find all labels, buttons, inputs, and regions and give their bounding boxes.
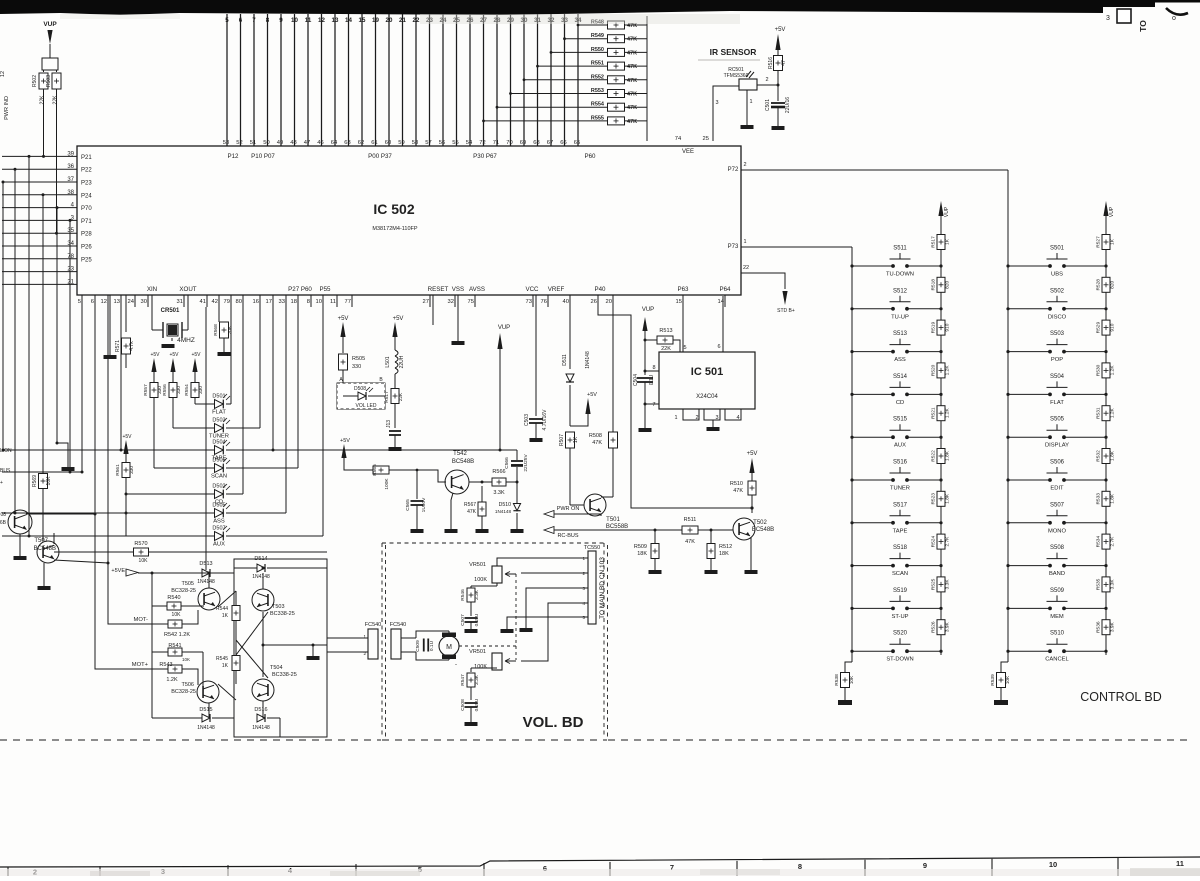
svg-text:R528: R528 xyxy=(1096,279,1102,291)
svg-text:P24: P24 xyxy=(81,193,92,199)
svg-text:R505: R505 xyxy=(352,356,365,362)
svg-text:31: 31 xyxy=(177,299,183,305)
svg-text:S501: S501 xyxy=(1050,246,1065,252)
svg-text:R569: R569 xyxy=(32,475,38,487)
svg-text:SCAN: SCAN xyxy=(892,571,908,577)
svg-text:D514: D514 xyxy=(254,556,267,562)
svg-text:D503: D503 xyxy=(212,418,225,424)
svg-text:TU-UP: TU-UP xyxy=(891,314,909,320)
svg-text:17: 17 xyxy=(266,299,272,305)
svg-text:33: 33 xyxy=(279,299,285,305)
svg-text:VSS: VSS xyxy=(452,286,464,293)
svg-text:ASS: ASS xyxy=(894,357,906,363)
svg-text:D501: D501 xyxy=(212,394,225,400)
svg-text:P00 P37: P00 P37 xyxy=(368,153,392,160)
svg-text:6: 6 xyxy=(239,17,243,24)
svg-text:BC328-25: BC328-25 xyxy=(171,689,196,695)
svg-text:MOT-: MOT- xyxy=(134,617,149,623)
svg-text:330: 330 xyxy=(176,386,182,394)
svg-text:S505: S505 xyxy=(1050,417,1065,423)
svg-text:XOUT: XOUT xyxy=(179,286,196,293)
svg-text:TU-DOWN: TU-DOWN xyxy=(886,272,914,278)
svg-text:T507: T507 xyxy=(34,538,48,544)
svg-text:P72: P72 xyxy=(728,167,739,173)
svg-text:SCAN: SCAN xyxy=(211,474,227,480)
svg-text:CONTROL BD: CONTROL BD xyxy=(1080,690,1162,704)
svg-text:P73: P73 xyxy=(728,244,739,250)
svg-text:9: 9 xyxy=(279,17,283,24)
svg-text:S502: S502 xyxy=(1050,288,1065,294)
svg-text:13: 13 xyxy=(114,299,120,305)
svg-text:11: 11 xyxy=(330,299,336,305)
svg-text:+5V: +5V xyxy=(747,451,758,457)
svg-text:R545: R545 xyxy=(216,656,228,662)
svg-text:1.2K: 1.2K xyxy=(166,677,178,683)
svg-text:IC 501: IC 501 xyxy=(691,366,723,378)
svg-text:R553: R553 xyxy=(591,88,604,94)
svg-text:22K: 22K xyxy=(398,392,404,401)
svg-text:3.3K: 3.3K xyxy=(1110,579,1116,590)
svg-text:BC548B: BC548B xyxy=(452,459,474,465)
svg-text:M38172M4-110FP: M38172M4-110FP xyxy=(372,226,417,232)
svg-text:S518: S518 xyxy=(893,545,908,551)
svg-text:R511: R511 xyxy=(684,517,697,523)
svg-text:R550: R550 xyxy=(591,47,604,53)
svg-text:R554: R554 xyxy=(184,384,190,396)
svg-text:CR501: CR501 xyxy=(161,308,180,314)
svg-text:VREF: VREF xyxy=(548,286,565,293)
svg-text:25: 25 xyxy=(703,136,709,142)
svg-text:75: 75 xyxy=(468,299,474,305)
svg-text:FLAT: FLAT xyxy=(212,410,226,416)
svg-text:59: 59 xyxy=(398,140,404,146)
svg-text:+5V: +5V xyxy=(338,316,349,322)
svg-text:1N4148: 1N4148 xyxy=(252,574,270,580)
svg-text:S514: S514 xyxy=(893,374,908,380)
svg-text:S509: S509 xyxy=(1050,588,1065,594)
svg-text:R513: R513 xyxy=(659,328,672,334)
svg-text:R520: R520 xyxy=(931,364,937,376)
svg-text:54: 54 xyxy=(466,140,473,146)
svg-text:FC540: FC540 xyxy=(365,622,382,628)
svg-text:62: 62 xyxy=(358,140,364,146)
svg-text:VR501: VR501 xyxy=(469,649,486,655)
svg-text:+5V: +5V xyxy=(393,316,404,322)
svg-text:S511: S511 xyxy=(893,246,907,252)
svg-text:22K: 22K xyxy=(40,95,46,105)
svg-text:6: 6 xyxy=(91,299,94,305)
svg-text:P26: P26 xyxy=(81,245,92,251)
svg-text:70: 70 xyxy=(506,140,512,146)
svg-text:R556: R556 xyxy=(162,384,168,396)
svg-text:R541: R541 xyxy=(168,643,181,649)
svg-text:42: 42 xyxy=(212,299,218,305)
svg-text:10K: 10K xyxy=(849,675,855,684)
svg-text:R532: R532 xyxy=(1096,450,1102,462)
svg-text:P40: P40 xyxy=(594,286,606,293)
svg-text:+5V: +5V xyxy=(169,352,179,358)
svg-text:1.2K: 1.2K xyxy=(1110,365,1116,376)
svg-text:R517: R517 xyxy=(384,391,390,403)
svg-text:11: 11 xyxy=(1176,859,1184,868)
svg-text:VR501: VR501 xyxy=(469,562,486,568)
svg-text:C566: C566 xyxy=(504,457,510,469)
svg-text:R544: R544 xyxy=(216,606,228,612)
svg-text:P30 P67: P30 P67 xyxy=(473,153,497,160)
svg-text:22K: 22K xyxy=(53,95,59,105)
svg-text:10K: 10K xyxy=(46,476,52,486)
svg-text:0.15U: 0.15U xyxy=(474,698,480,711)
svg-text:47: 47 xyxy=(781,60,787,66)
svg-text:65: 65 xyxy=(574,140,580,146)
svg-text:77: 77 xyxy=(345,299,351,305)
svg-text:5: 5 xyxy=(225,17,229,24)
svg-text:16: 16 xyxy=(253,299,259,305)
svg-text:+5VE: +5VE xyxy=(111,568,125,574)
svg-text:EDIT: EDIT xyxy=(1050,486,1064,492)
svg-text:MONO: MONO xyxy=(1048,528,1067,534)
svg-text:52: 52 xyxy=(236,140,242,146)
svg-text:3.3K: 3.3K xyxy=(945,579,951,590)
svg-text:TUNER: TUNER xyxy=(890,486,910,492)
svg-text:15: 15 xyxy=(676,299,682,305)
svg-text:VOL. BD: VOL. BD xyxy=(523,714,584,731)
svg-text:2.7K: 2.7K xyxy=(1110,536,1116,547)
svg-text:1K: 1K xyxy=(573,436,579,443)
svg-text:3.3K: 3.3K xyxy=(474,589,480,600)
svg-text:D502: D502 xyxy=(212,484,225,490)
svg-text:22U25V: 22U25V xyxy=(523,454,529,472)
svg-text:D510: D510 xyxy=(499,502,512,508)
svg-text:9: 9 xyxy=(923,861,927,870)
svg-text:PWR IND: PWR IND xyxy=(4,96,10,120)
svg-text:+: + xyxy=(0,480,3,486)
svg-text:1N4148: 1N4148 xyxy=(495,509,512,514)
svg-text:69: 69 xyxy=(520,140,526,146)
svg-text:47K: 47K xyxy=(467,509,477,515)
svg-text:M: M xyxy=(446,644,452,651)
svg-text:TFMS5360: TFMS5360 xyxy=(724,73,749,79)
svg-text:TO MAIN BD CN 103: TO MAIN BD CN 103 xyxy=(599,557,606,619)
svg-text:DISPLAY: DISPLAY xyxy=(1045,443,1069,449)
svg-text:R552: R552 xyxy=(591,74,604,80)
svg-text:RESET: RESET xyxy=(428,286,449,293)
svg-text:UBS: UBS xyxy=(1051,272,1063,278)
svg-text:T506: T506 xyxy=(181,682,194,688)
svg-text:1.8K: 1.8K xyxy=(945,450,951,461)
svg-text:R526: R526 xyxy=(931,621,937,633)
svg-text:C501: C501 xyxy=(765,99,771,111)
svg-text:R533: R533 xyxy=(1096,493,1102,505)
svg-text:8: 8 xyxy=(266,17,270,24)
svg-text:71: 71 xyxy=(493,140,499,146)
svg-text:R510: R510 xyxy=(730,481,743,487)
svg-text:ST-DOWN: ST-DOWN xyxy=(886,657,913,663)
svg-text:+5V: +5V xyxy=(122,434,132,440)
svg-text:1: 1 xyxy=(674,415,677,421)
svg-text:R512: R512 xyxy=(719,544,732,550)
svg-text:-: - xyxy=(455,662,457,668)
svg-text:C504: C504 xyxy=(633,374,639,386)
svg-text:1N4148: 1N4148 xyxy=(585,351,591,369)
svg-text:ST-UP: ST-UP xyxy=(891,614,908,620)
svg-text:R529: R529 xyxy=(1096,322,1102,334)
svg-text:TO: TO xyxy=(1138,20,1148,32)
svg-text:4MHZ: 4MHZ xyxy=(177,337,195,344)
svg-text:57: 57 xyxy=(425,140,431,146)
svg-text:22: 22 xyxy=(743,265,749,271)
svg-text:0.15U: 0.15U xyxy=(474,613,480,626)
svg-text:C508: C508 xyxy=(460,699,466,711)
svg-text:100K: 100K xyxy=(474,577,487,583)
svg-text:S506: S506 xyxy=(1050,460,1065,466)
svg-text:330: 330 xyxy=(352,364,361,370)
svg-text:P22: P22 xyxy=(81,168,92,174)
svg-text:AUX: AUX xyxy=(213,542,225,548)
svg-text:11: 11 xyxy=(305,17,312,24)
svg-text:DISCO: DISCO xyxy=(1048,314,1067,320)
svg-text:R555: R555 xyxy=(591,115,604,121)
svg-text:47: 47 xyxy=(304,140,310,146)
svg-text:P64: P64 xyxy=(719,286,731,293)
svg-text:D513: D513 xyxy=(199,561,212,567)
svg-text:D516: D516 xyxy=(254,707,267,713)
svg-text:330: 330 xyxy=(129,466,135,474)
svg-text:P55: P55 xyxy=(319,286,331,293)
svg-text:R557: R557 xyxy=(143,384,149,396)
svg-text:T542: T542 xyxy=(453,451,467,457)
svg-text:100K: 100K xyxy=(474,664,487,670)
svg-text:41: 41 xyxy=(200,299,206,305)
svg-text:R540: R540 xyxy=(167,595,180,601)
svg-text:J13: J13 xyxy=(386,420,392,428)
svg-text:72: 72 xyxy=(479,140,485,146)
svg-text:P70: P70 xyxy=(81,206,92,212)
svg-text:6B: 6B xyxy=(0,520,7,526)
svg-text:2: 2 xyxy=(695,415,698,421)
svg-text:IC 502: IC 502 xyxy=(373,201,414,217)
svg-text:S507: S507 xyxy=(1050,502,1065,508)
svg-text:D507: D507 xyxy=(212,526,225,532)
svg-text:R516: R516 xyxy=(768,57,774,69)
svg-text:R524: R524 xyxy=(931,536,937,548)
svg-text:47K: 47K xyxy=(592,440,602,446)
svg-text:46: 46 xyxy=(317,140,323,146)
svg-text:BUS: BUS xyxy=(0,468,11,474)
svg-text:22K: 22K xyxy=(661,346,671,352)
svg-text:R567: R567 xyxy=(464,502,476,508)
svg-text:RC-BUS: RC-BUS xyxy=(557,533,578,539)
svg-text:R547: R547 xyxy=(460,674,466,686)
svg-text:4: 4 xyxy=(736,415,739,421)
svg-text:BC558B: BC558B xyxy=(606,524,628,530)
svg-text:1.2K: 1.2K xyxy=(1110,407,1116,418)
svg-text:910: 910 xyxy=(1110,323,1116,331)
svg-text:55: 55 xyxy=(452,140,458,146)
svg-text:S515: S515 xyxy=(893,417,908,423)
svg-text:1K: 1K xyxy=(1110,238,1116,245)
svg-text:ASS: ASS xyxy=(213,519,225,525)
svg-text:3.3K: 3.3K xyxy=(474,674,480,685)
svg-text:820: 820 xyxy=(945,280,951,288)
svg-text:47K: 47K xyxy=(627,92,637,98)
svg-text:D506: D506 xyxy=(212,458,225,464)
svg-text:4.7U/16V: 4.7U/16V xyxy=(542,409,548,431)
svg-text:R518: R518 xyxy=(931,279,937,291)
svg-text:1K: 1K xyxy=(222,663,229,669)
svg-text:3: 3 xyxy=(715,100,718,106)
svg-text:+5V: +5V xyxy=(191,352,201,358)
svg-text:BC548B: BC548B xyxy=(34,546,56,552)
svg-text:5: 5 xyxy=(683,345,686,351)
svg-text:100K: 100K xyxy=(384,478,390,490)
svg-text:R536: R536 xyxy=(1096,621,1102,633)
svg-text:R523: R523 xyxy=(931,493,937,505)
svg-text:R561: R561 xyxy=(115,464,121,476)
svg-text:08: 08 xyxy=(0,512,6,518)
svg-text:+5V: +5V xyxy=(150,352,160,358)
svg-text:12: 12 xyxy=(101,299,107,305)
svg-text:R566: R566 xyxy=(492,469,505,475)
svg-text:74: 74 xyxy=(675,136,682,142)
svg-text:BC338-25: BC338-25 xyxy=(272,672,297,678)
svg-text:1.8K: 1.8K xyxy=(1110,450,1116,461)
svg-text:VEE: VEE xyxy=(682,149,694,155)
svg-text:53: 53 xyxy=(223,140,229,146)
svg-text:R521: R521 xyxy=(931,407,937,419)
svg-text:8: 8 xyxy=(307,299,310,305)
svg-text:47K: 47K xyxy=(627,64,637,70)
svg-text:76: 76 xyxy=(541,299,547,305)
svg-text:D508: D508 xyxy=(354,386,366,392)
svg-text:60: 60 xyxy=(385,140,391,146)
svg-text:R568: R568 xyxy=(213,324,219,336)
svg-text:R508: R508 xyxy=(589,433,602,439)
svg-text:20: 20 xyxy=(606,299,612,305)
svg-text:79: 79 xyxy=(224,299,230,305)
svg-text:R507: R507 xyxy=(559,434,565,446)
svg-text:S517: S517 xyxy=(893,502,908,508)
svg-text:TAPE: TAPE xyxy=(893,528,908,534)
svg-text:R554: R554 xyxy=(591,102,605,108)
svg-text:24: 24 xyxy=(128,299,135,305)
svg-text:7: 7 xyxy=(652,402,655,408)
svg-text:80: 80 xyxy=(236,299,242,305)
svg-text:P12: P12 xyxy=(227,153,239,160)
svg-text:R525: R525 xyxy=(931,578,937,590)
svg-text:C509: C509 xyxy=(415,640,421,652)
svg-text:10K: 10K xyxy=(172,612,182,618)
svg-text:47K: 47K xyxy=(627,37,637,43)
svg-text:1N4148: 1N4148 xyxy=(252,725,270,731)
svg-text:S503: S503 xyxy=(1050,331,1065,337)
svg-text:P25: P25 xyxy=(81,257,92,263)
svg-text:R542 1.2K: R542 1.2K xyxy=(164,632,190,638)
svg-text:C503: C503 xyxy=(524,414,530,426)
svg-text:0.1U: 0.1U xyxy=(429,640,435,651)
svg-text:STD B+: STD B+ xyxy=(777,308,795,314)
svg-text:7: 7 xyxy=(252,17,256,24)
svg-text:26: 26 xyxy=(591,299,597,305)
svg-text:P28: P28 xyxy=(81,232,92,238)
svg-text:47K: 47K xyxy=(733,488,743,494)
svg-text:R503: R503 xyxy=(46,75,52,87)
svg-text:R530: R530 xyxy=(1096,364,1102,376)
svg-text:P21: P21 xyxy=(81,155,92,161)
svg-text:8: 8 xyxy=(652,365,655,371)
svg-text:BAND: BAND xyxy=(1049,571,1065,577)
svg-text:+5V: +5V xyxy=(340,438,350,444)
svg-text:R546: R546 xyxy=(460,589,466,601)
svg-text:VCC: VCC xyxy=(525,286,539,293)
svg-text:POP: POP xyxy=(1051,357,1063,363)
svg-text:10: 10 xyxy=(291,17,298,24)
svg-text:51: 51 xyxy=(250,140,256,146)
svg-text:R527: R527 xyxy=(1096,236,1102,248)
svg-text:+5V: +5V xyxy=(587,392,597,398)
svg-text:P10 P07: P10 P07 xyxy=(251,153,275,160)
svg-text:13: 13 xyxy=(332,17,339,24)
svg-text:27: 27 xyxy=(423,299,429,305)
svg-text:22U/16: 22U/16 xyxy=(785,97,791,113)
svg-text:D515: D515 xyxy=(199,707,212,713)
svg-text:R509: R509 xyxy=(634,544,647,550)
svg-text:P71: P71 xyxy=(81,219,92,225)
svg-text:P60: P60 xyxy=(584,153,596,160)
svg-text:14: 14 xyxy=(718,299,725,305)
svg-text:R549: R549 xyxy=(591,33,604,39)
svg-text:1.8K: 1.8K xyxy=(945,493,951,504)
svg-text:1U50V: 1U50V xyxy=(421,497,427,512)
svg-text:0.1U: 0.1U xyxy=(649,374,655,385)
svg-text:VUP: VUP xyxy=(43,21,57,28)
svg-text:D504: D504 xyxy=(212,440,225,446)
svg-text:MEM: MEM xyxy=(1050,614,1064,620)
svg-text:18: 18 xyxy=(291,299,297,305)
svg-text:30: 30 xyxy=(141,299,147,305)
svg-text:1K: 1K xyxy=(945,238,951,245)
svg-text:56: 56 xyxy=(439,140,445,146)
svg-text:3: 3 xyxy=(715,415,718,421)
svg-text:3: 3 xyxy=(1106,15,1110,22)
svg-text:PWR ON: PWR ON xyxy=(557,506,580,512)
svg-text:10K: 10K xyxy=(139,558,149,564)
svg-text:4.7k: 4.7k xyxy=(129,341,135,351)
svg-text:47K: 47K xyxy=(685,539,695,545)
svg-text:S512: S512 xyxy=(893,288,908,294)
svg-text:o: o xyxy=(1172,15,1176,22)
svg-text:50: 50 xyxy=(263,140,269,146)
svg-text:1K: 1K xyxy=(222,613,229,619)
svg-text:S513: S513 xyxy=(893,331,908,337)
svg-text:R551: R551 xyxy=(591,61,604,67)
svg-text:6: 6 xyxy=(717,344,720,350)
svg-text:T501: T501 xyxy=(606,517,620,523)
svg-text:1N4148: 1N4148 xyxy=(197,725,215,731)
svg-text:2: 2 xyxy=(765,77,768,83)
svg-text:VUP: VUP xyxy=(642,307,654,313)
svg-text:12: 12 xyxy=(318,17,325,24)
svg-text:49: 49 xyxy=(277,140,283,146)
svg-text:12: 12 xyxy=(0,71,6,77)
svg-text:910: 910 xyxy=(945,323,951,331)
svg-text:S519: S519 xyxy=(893,588,908,594)
svg-text:10K: 10K xyxy=(182,657,190,662)
svg-text:63: 63 xyxy=(344,140,350,146)
svg-text:10K: 10K xyxy=(1005,675,1011,684)
svg-text:FLAT: FLAT xyxy=(1050,400,1064,406)
svg-text:14: 14 xyxy=(345,17,352,24)
